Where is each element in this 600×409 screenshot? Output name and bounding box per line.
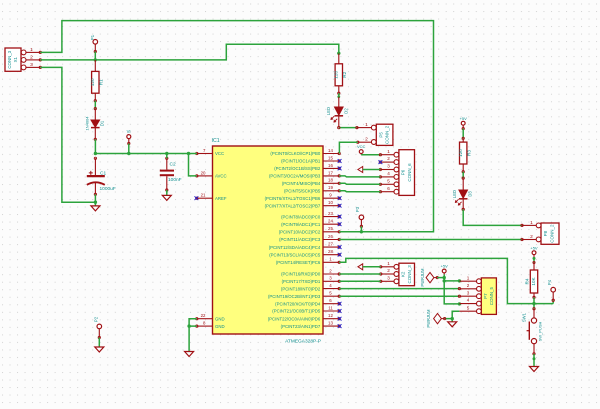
ground below C2 <box>162 195 171 200</box>
svg-text:+5V: +5V <box>460 116 468 121</box>
svg-text:CONN_2: CONN_2 <box>385 125 390 144</box>
svg-text:1: 1 <box>387 149 390 154</box>
wire R1 to D1 <box>94 101 96 109</box>
svg-text:K2: K2 <box>401 271 406 277</box>
node PD3 end <box>458 295 460 297</box>
wire R3 to D3 <box>462 172 464 178</box>
svg-text:2: 2 <box>467 283 470 288</box>
wire net X1-3 to C1 ground node <box>40 67 95 202</box>
svg-text:17: 17 <box>328 170 333 175</box>
connector P5 CONN_2 <box>356 122 393 145</box>
wire PD1 to K2 pin3 <box>339 280 381 282</box>
connector X1 CONN_3 <box>5 47 41 71</box>
wire C2 to ground <box>166 190 168 195</box>
svg-text:19: 19 <box>328 185 333 190</box>
svg-text:CONN_3: CONN_3 <box>7 50 12 68</box>
resistor R2 120 <box>334 53 348 94</box>
svg-text:(PCINT22/OC0A/AIN0)PD6: (PCINT22/OC0A/AIN0)PD6 <box>268 316 321 321</box>
svg-text:P2: P2 <box>94 316 99 322</box>
svg-text:10: 10 <box>328 200 333 205</box>
node R2/D2 <box>337 95 340 98</box>
node SW1 ground wire <box>533 357 536 360</box>
node P7 pin1 wire <box>458 279 461 282</box>
ground below P2 <box>95 347 104 352</box>
svg-text:5: 5 <box>467 305 470 310</box>
wire P3 to PC2 net <box>360 226 362 232</box>
svg-text:SW_PUSH: SW_PUSH <box>537 321 542 341</box>
svg-text:3: 3 <box>467 290 470 295</box>
svg-text:(PCINT21/OC0B/T1)PD5: (PCINT21/OC0B/T1)PD5 <box>272 309 321 314</box>
wire SW1 to ground <box>533 354 535 367</box>
wire P5 pin2 to PB0 <box>339 142 357 153</box>
svg-text:(PCINT2/OC1B/SS)PB2: (PCINT2/OC1B/SS)PB2 <box>274 166 321 171</box>
svg-text:PWRJUM: PWRJUM <box>426 309 431 328</box>
svg-text:1000uF: 1000uF <box>100 186 116 192</box>
wire ground stub <box>451 319 453 322</box>
wire PB5 to P6 pin6 <box>339 190 380 193</box>
ground below SW1 <box>530 367 539 372</box>
svg-text:18: 18 <box>328 178 333 183</box>
wire arrow to P6 pin3 <box>363 169 381 171</box>
node junction AVCC branch <box>187 152 190 155</box>
svg-text:(PCINT8/ADC0)PC0: (PCINT8/ADC0)PC0 <box>281 214 321 219</box>
svg-text:1: 1 <box>467 275 470 280</box>
jumper JP2 diamond <box>426 309 446 328</box>
svg-text:120: 120 <box>334 71 339 79</box>
node R2 top <box>337 52 340 55</box>
node junction C2/rail <box>165 152 168 155</box>
node junction C1/ground <box>94 201 97 204</box>
svg-text:3: 3 <box>387 275 390 280</box>
node D2 corner <box>338 126 340 128</box>
wire VCC to P6 pin1 <box>361 154 380 156</box>
wire PD2 to P7 pin2 <box>339 288 459 290</box>
wire C1 to ground node <box>94 194 96 202</box>
svg-text:+5V: +5V <box>441 264 449 269</box>
svg-text:GND: GND <box>215 316 225 321</box>
wire PD3 to P7 pin3 <box>339 295 459 297</box>
wire P2 to ground <box>98 338 100 348</box>
svg-text:(PCINT12/SDA/ADC4)PC4: (PCINT12/SDA/ADC4)PC4 <box>269 245 321 250</box>
svg-text:4: 4 <box>467 298 470 303</box>
wire PB3 to P6 pin4 <box>339 176 380 177</box>
wire P1 to net <box>94 52 96 60</box>
svg-text:5: 5 <box>387 178 390 183</box>
svg-text:20: 20 <box>201 170 206 175</box>
wire net X1-1 to top rail and PC2 <box>40 21 433 232</box>
diode D1 1N4004 <box>84 107 104 140</box>
resistor R1 120 <box>90 60 104 102</box>
svg-text:6: 6 <box>387 186 390 191</box>
svg-text:13: 13 <box>328 321 333 326</box>
svg-text:(PCINT14/RESET)PC6: (PCINT14/RESET)PC6 <box>276 260 321 265</box>
svg-text:(PCINT10/ADC2)PC2: (PCINT10/ADC2)PC2 <box>279 230 321 235</box>
svg-text:IC1: IC1 <box>212 138 220 144</box>
svg-text:D3: D3 <box>468 191 473 197</box>
svg-text:120: 120 <box>458 149 463 157</box>
resistor R3 120 <box>458 137 472 173</box>
node junction +5V/P7pin1 <box>443 279 446 282</box>
node junction pin5 ground <box>451 317 454 320</box>
svg-text:11: 11 <box>328 305 333 310</box>
svg-text:10K: 10K <box>531 276 536 285</box>
svg-text:(PCINT20/XCK/T0)PD4: (PCINT20/XCK/T0)PD4 <box>275 301 321 306</box>
svg-text:1: 1 <box>30 47 33 53</box>
pin P3 <box>355 206 364 227</box>
svg-text:2: 2 <box>530 234 533 240</box>
svg-text:R4: R4 <box>524 278 529 284</box>
power pin +5V above R3 <box>460 116 468 130</box>
svg-text:16: 16 <box>328 163 333 168</box>
svg-text:2: 2 <box>387 156 390 161</box>
capacitor C2 100nF <box>160 157 182 191</box>
svg-text:(PCINT0/CLKO/ICP1)PB0: (PCINT0/CLKO/ICP1)PB0 <box>270 151 321 156</box>
LED D2 <box>326 97 348 128</box>
wire P7 pin5 to ground <box>445 311 460 318</box>
node junction P1/R1 <box>94 58 97 61</box>
wire GND pins to ground <box>189 319 197 352</box>
svg-text:26: 26 <box>328 234 333 239</box>
wire arrow to K2 pin1 <box>363 266 381 268</box>
svg-text:4: 4 <box>387 171 390 176</box>
node junction VI/rail <box>127 152 130 155</box>
svg-text:VCC: VCC <box>215 151 224 156</box>
wire C2 top to rail <box>166 154 168 159</box>
wire PD0 to K2 pin2 <box>339 273 381 275</box>
svg-text:15: 15 <box>328 155 333 160</box>
power pin +5V above R4 <box>530 245 538 258</box>
wire to ground <box>94 202 96 206</box>
svg-text:CONN_6: CONN_6 <box>407 163 412 182</box>
svg-text:D1: D1 <box>100 120 105 126</box>
svg-text:21: 21 <box>201 193 206 198</box>
svg-text:28: 28 <box>328 249 333 254</box>
svg-text:C1: C1 <box>100 171 106 177</box>
pin P4 <box>547 279 555 301</box>
svg-text:(PCINT4/MISO)PB4: (PCINT4/MISO)PB4 <box>282 181 321 186</box>
wire PC3 to P8 pin2 <box>339 239 522 241</box>
svg-text:24: 24 <box>328 219 333 224</box>
jumper JP1 diamond <box>420 268 438 287</box>
svg-text:(PCINT3/OC2A/MOSI)PB3: (PCINT3/OC2A/MOSI)PB3 <box>269 174 321 179</box>
svg-text:2: 2 <box>365 136 368 142</box>
svg-text:P4: P4 <box>547 279 552 285</box>
power pin VCC <box>357 144 366 155</box>
power pin +5V near P7 <box>441 264 449 275</box>
resistor R4 10K <box>524 261 537 298</box>
svg-text:(PCINT13/SCL/ADC5)PC5: (PCINT13/SCL/ADC5)PC5 <box>269 252 321 257</box>
svg-text:14: 14 <box>328 148 333 153</box>
wire D3 to P8 pin1 <box>463 209 522 225</box>
node junction +5V/diamond <box>443 276 446 279</box>
svg-text:3: 3 <box>30 62 33 68</box>
svg-text:AREF: AREF <box>215 196 227 201</box>
svg-text:CONN_5: CONN_5 <box>489 286 494 305</box>
svg-text:VCC: VCC <box>357 144 366 149</box>
node junction RESET/R4 <box>532 302 535 305</box>
svg-text:D2: D2 <box>343 108 348 114</box>
LED D3 <box>452 177 473 211</box>
net arrow K2 pin1 <box>358 264 363 270</box>
svg-text:(PCINT17/TXD)PD1: (PCINT17/TXD)PD1 <box>282 279 321 284</box>
svg-text:VI: VI <box>127 129 131 134</box>
svg-text:3: 3 <box>387 164 390 169</box>
svg-text:CONN_3: CONN_3 <box>407 265 412 284</box>
svg-text:(PCINT1/OC1A)PB1: (PCINT1/OC1A)PB1 <box>281 159 321 164</box>
pin P2 <box>94 316 102 338</box>
node +5V/R4 <box>533 257 536 260</box>
node junction D1/C1/rail <box>94 152 97 155</box>
svg-text:PWRJUM: PWRJUM <box>420 268 425 287</box>
wire net X1-2 to R2 <box>40 44 339 60</box>
node PD2 end <box>458 287 460 289</box>
svg-text:P7: P7 <box>483 293 488 299</box>
switch SW1 SW_PUSH <box>522 308 543 355</box>
svg-text:2: 2 <box>387 268 390 273</box>
svg-text:ATMEGA328P-P: ATMEGA328P-P <box>285 338 321 344</box>
node P7 pin4 wire <box>458 302 461 305</box>
svg-text:CONN_2: CONN_2 <box>549 224 554 243</box>
svg-text:(PCINT5/SCK)PB5: (PCINT5/SCK)PB5 <box>284 189 321 194</box>
net arrow P6 pin3 <box>358 167 363 173</box>
wire D1 to VCC rail <box>94 139 96 153</box>
svg-text:(PCINT6/XTAL1/TOSC1)PB6: (PCINT6/XTAL1/TOSC1)PB6 <box>265 196 321 201</box>
ground near P7 <box>448 322 457 327</box>
svg-text:(PCINT16/RXD)PD0: (PCINT16/RXD)PD0 <box>281 272 321 277</box>
svg-text:GND: GND <box>215 324 225 329</box>
svg-text:23: 23 <box>328 211 333 216</box>
svg-text:(PCINT23/AIN1)PD7: (PCINT23/AIN1)PD7 <box>281 324 321 329</box>
pin P1 <box>90 34 98 52</box>
svg-text:R1: R1 <box>99 79 104 85</box>
svg-text:(PCINT19/OC2B/INT1)PD3: (PCINT19/OC2B/INT1)PD3 <box>268 294 321 299</box>
svg-text:P3: P3 <box>355 206 360 212</box>
connector P6 CONN_6 <box>379 149 415 196</box>
wire +5V to R3 <box>462 129 464 139</box>
svg-text:2: 2 <box>30 55 33 61</box>
connector P8 CONN_2 <box>522 220 559 245</box>
svg-text:R2: R2 <box>342 71 347 77</box>
svg-text:C2: C2 <box>170 161 176 167</box>
node PC3 end <box>521 238 523 240</box>
svg-text:R3: R3 <box>467 150 472 156</box>
connector K2 CONN_3 <box>380 261 415 286</box>
wire D2 to P5 pin1 <box>339 127 357 129</box>
svg-text:P5: P5 <box>378 132 383 138</box>
capacitor C1 1000uF <box>87 157 116 195</box>
svg-text:SW1: SW1 <box>522 312 527 322</box>
wire VCC rail <box>95 154 196 176</box>
wire RESET net <box>339 258 553 303</box>
svg-text:1: 1 <box>387 261 390 266</box>
svg-text:(PCINT9/ADC1)PC1: (PCINT9/ADC1)PC1 <box>281 222 321 227</box>
wire R4 to junction <box>533 297 535 308</box>
svg-text:22: 22 <box>201 313 206 318</box>
svg-text:P6: P6 <box>401 169 406 175</box>
svg-text:120: 120 <box>90 78 95 86</box>
IC IC1 ATMEGA328P-P microcontroller <box>195 138 342 344</box>
svg-text:27: 27 <box>328 242 333 247</box>
node junction P3/PC2 <box>360 230 363 233</box>
ground below IC1 <box>185 352 194 357</box>
wire R2 to D2 <box>338 93 340 97</box>
svg-text:X1: X1 <box>13 56 18 62</box>
wire diamond to +5V net <box>437 277 444 279</box>
svg-text:(PCINT7/XTAL2/TOSC2)PB7: (PCINT7/XTAL2/TOSC2)PB7 <box>265 203 321 208</box>
node junction GND pins <box>187 324 190 327</box>
ground below C1 <box>91 206 100 211</box>
svg-text:+5V: +5V <box>530 245 538 250</box>
node D3 wire end <box>521 224 523 226</box>
svg-text:1N4004: 1N4004 <box>84 116 89 131</box>
wire PB4 to P6 pin5 <box>339 183 380 184</box>
wire +5V to R4 <box>533 258 535 262</box>
wire VI to rail <box>128 144 130 154</box>
svg-text:AVCC: AVCC <box>215 174 227 179</box>
power pin VI <box>127 129 131 144</box>
svg-text:P8: P8 <box>543 230 548 236</box>
svg-text:LED: LED <box>326 107 331 115</box>
svg-text:(PCINT18/INT0)PD2: (PCINT18/INT0)PD2 <box>281 286 321 291</box>
svg-text:25: 25 <box>328 226 333 231</box>
svg-text:12: 12 <box>328 313 333 318</box>
svg-text:(PCINT11/ADC3)PC3: (PCINT11/ADC3)PC3 <box>279 237 321 242</box>
svg-text:100nF: 100nF <box>168 177 182 183</box>
svg-text:LED: LED <box>452 190 457 198</box>
wire +5V distribution <box>444 274 459 304</box>
connector P7 CONN_5 <box>459 275 496 314</box>
